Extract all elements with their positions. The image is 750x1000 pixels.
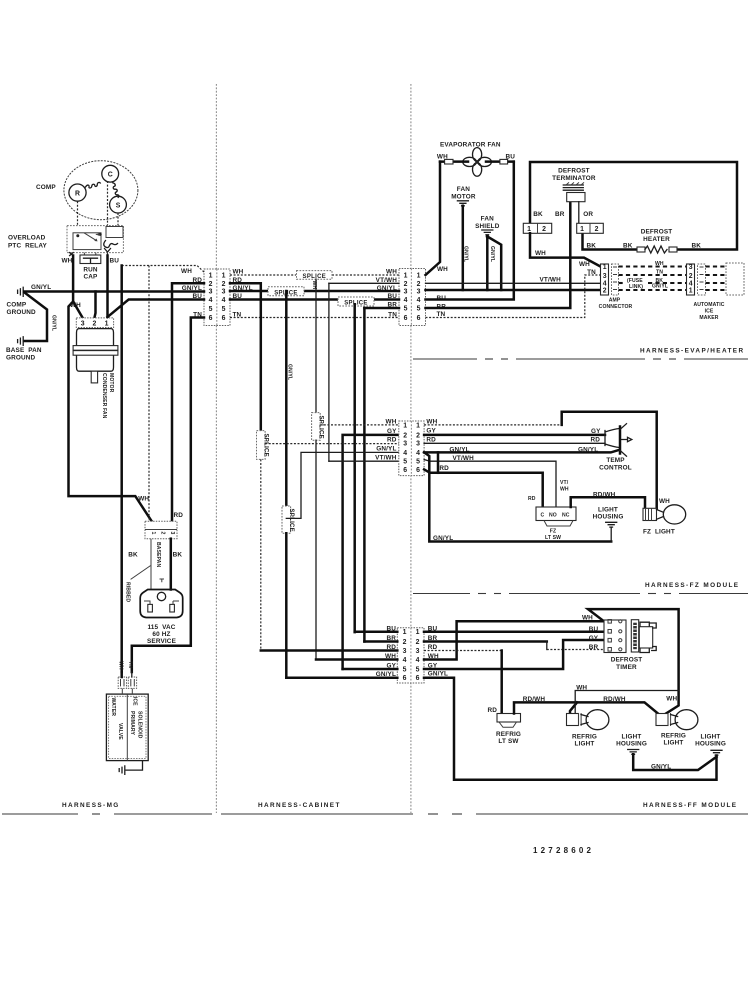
overload contacts: [73, 233, 101, 250]
svg-text:2: 2: [603, 288, 607, 295]
svg-text:2: 2: [222, 281, 226, 288]
wire GN/YL FZ pin4 to temp control: [424, 450, 619, 453]
wire BR row to defrost terminator: [426, 202, 571, 308]
svg-text:2: 2: [403, 639, 407, 646]
svg-text:TN: TN: [127, 661, 133, 668]
svg-text:1: 1: [417, 273, 421, 280]
svg-text:HARNESS-CABINET: HARNESS-CABINET: [258, 802, 341, 809]
lead C: [107, 181, 109, 256]
svg-text:6: 6: [404, 315, 408, 322]
svg-text:RD: RD: [174, 512, 184, 519]
svg-text:3: 3: [603, 273, 607, 280]
svg-text:RD: RD: [439, 465, 449, 472]
wire GN/YL comp ground to connector: [24, 290, 204, 293]
basepan connector: [145, 521, 177, 538]
condenser fan motor shaft: [91, 371, 97, 383]
svg-text:LINK): LINK): [629, 284, 643, 290]
wire GN/YL branch to fan pin2: [94, 292, 95, 318]
lead R: [77, 201, 79, 236]
svg-text:CONNECTOR: CONNECTOR: [599, 304, 633, 310]
wire TN row to AMP pin3: [426, 275, 601, 318]
svg-text:LIGHT: LIGHT: [598, 507, 618, 514]
compressor terminal R: [69, 184, 86, 201]
PTC element: [104, 241, 118, 248]
wire VT/WH row2 evap side: [329, 282, 399, 284]
svg-text:TERMINATOR: TERMINATOR: [552, 175, 596, 182]
svg-text:5: 5: [403, 666, 407, 673]
svg-text:SOLENOID: SOLENOID: [137, 711, 143, 739]
svg-text:2: 2: [92, 320, 96, 327]
svg-text:BR: BR: [589, 644, 599, 651]
svg-text:EVAPORATOR FAN: EVAPORATOR FAN: [440, 142, 501, 149]
svg-text:BK: BK: [128, 552, 138, 559]
svg-text:VT/WH: VT/WH: [540, 276, 562, 283]
svg-text:RD: RD: [387, 436, 397, 443]
wire GN/YL vertical cabinet: [285, 291, 288, 506]
svg-text:1: 1: [580, 226, 584, 233]
svg-text:RD: RD: [528, 496, 536, 502]
svg-text:LIGHT: LIGHT: [664, 740, 684, 747]
wire BU into FF pin1: [355, 631, 398, 634]
fan shield ground: [482, 230, 493, 235]
connector FF 6-pin: [397, 628, 424, 683]
svg-text:60 HZ: 60 HZ: [152, 631, 170, 638]
svg-text:5: 5: [403, 459, 407, 466]
svg-text:PTC RELAY: PTC RELAY: [8, 242, 47, 249]
svg-text:COMP: COMP: [7, 302, 27, 309]
svg-text:1: 1: [603, 264, 607, 271]
connector FZ 6-pin: [399, 421, 424, 476]
wire GY into FF pin5: [343, 668, 398, 671]
svg-text:RD: RD: [488, 707, 498, 714]
wire GY FZ pin2 to temp control: [424, 434, 605, 437]
ice maker harness dashed wires: [619, 265, 687, 267]
svg-text:2: 2: [209, 281, 213, 288]
svg-text:ICE: ICE: [705, 308, 714, 314]
svg-text:GROUND: GROUND: [7, 309, 37, 316]
svg-text:FZ LIGHT: FZ LIGHT: [643, 529, 675, 536]
harness separator bottom horizontal: [2, 813, 78, 815]
svg-text:BK: BK: [173, 552, 183, 559]
wire GN/YL fan shield ground: [486, 237, 489, 291]
svg-text:BR: BR: [555, 211, 565, 218]
wire RD vertical cabinet: [230, 283, 261, 430]
svg-text:5: 5: [222, 306, 226, 313]
wire RD/WH switch to lights: [514, 702, 658, 713]
svg-text:1: 1: [222, 273, 226, 280]
svg-text:4: 4: [403, 657, 407, 664]
svg-text:WH: WH: [70, 302, 81, 309]
svg-text:REFRIG: REFRIG: [661, 733, 686, 740]
refrig light switch: [497, 714, 521, 723]
svg-text:3: 3: [222, 289, 226, 296]
wire WH FZ pin1 to FZ light: [424, 424, 562, 426]
svg-text:2: 2: [160, 532, 166, 535]
svg-text:DEFROST: DEFROST: [641, 229, 673, 236]
wire GY vertical cabinet: [343, 435, 399, 669]
svg-text:AMP: AMP: [609, 298, 621, 304]
svg-text:RUN: RUN: [83, 266, 98, 273]
ice maker module dashed: [706, 265, 727, 267]
svg-text:OR: OR: [583, 211, 593, 218]
svg-text:BU: BU: [110, 257, 120, 264]
svg-text:GN/YL: GN/YL: [652, 284, 668, 290]
svg-text:HARNESS-EVAP/HEATER: HARNESS-EVAP/HEATER: [640, 347, 744, 354]
svg-text:6: 6: [403, 675, 407, 682]
FF housing ground 1: [628, 750, 639, 755]
wire RD branch to FZ pin3: [265, 443, 399, 445]
svg-text:3: 3: [689, 264, 693, 271]
svg-text:6: 6: [403, 467, 407, 474]
svg-text:VT/WH: VT/WH: [375, 454, 397, 461]
splice WH: [297, 271, 333, 280]
svg-text:1: 1: [150, 532, 156, 535]
svg-text:HARNESS-FF MODULE: HARNESS-FF MODULE: [643, 802, 737, 809]
wire VT/WH FZ pin5 to FZ lt sw NO: [424, 460, 556, 508]
svg-text:5: 5: [416, 666, 420, 673]
splice GN/YL cabinet: [282, 506, 291, 533]
fan motor ground: [457, 201, 468, 206]
svg-text:SERVICE: SERVICE: [147, 638, 177, 645]
svg-text:BK: BK: [623, 242, 633, 249]
svg-text:GN/YL: GN/YL: [489, 246, 495, 262]
wire GN/YL housing grounds: [633, 754, 716, 770]
wire RD into FF pin3: [261, 649, 398, 652]
svg-text:WH: WH: [118, 661, 124, 670]
svg-text:HOUSING: HOUSING: [616, 741, 647, 748]
wire GN/YL fan motor ground: [462, 206, 465, 290]
svg-text:WH: WH: [233, 268, 244, 275]
svg-text:RD: RD: [591, 437, 601, 444]
svg-text:CAP: CAP: [84, 274, 99, 281]
connector MG/cabinet 6-pin: [204, 269, 230, 326]
svg-text:1: 1: [403, 422, 407, 429]
FF housing ground 2: [711, 750, 722, 755]
harness separator evap/heater horizontal: [413, 358, 477, 360]
run capacitor: [83, 253, 85, 255]
svg-text:GN/YL: GN/YL: [428, 670, 448, 677]
condenser fan connector 3-2-1: [76, 318, 113, 328]
defrost timer: [604, 620, 626, 653]
evaporator fan symbol: [473, 148, 482, 162]
wire RD FZ pin6 to FZ lt sw C: [424, 469, 543, 507]
wire GN/YL into FF pin6: [286, 676, 397, 679]
temp control symbol: [605, 429, 620, 448]
svg-text:SPLICE: SPLICE: [344, 301, 367, 307]
wire valve leads: [120, 672, 123, 677]
svg-text:GN/YL: GN/YL: [651, 764, 671, 771]
svg-text:WH: WH: [582, 615, 593, 622]
wire BU fan down to pin4: [426, 162, 514, 300]
wire RD mg row to basepan: [172, 283, 204, 521]
svg-text:NO: NO: [549, 513, 557, 519]
svg-text:GY: GY: [426, 427, 436, 434]
compressor terminal C: [102, 165, 119, 182]
harness separator vertical MG/CABINET: [215, 84, 217, 813]
svg-text:2: 2: [417, 281, 421, 288]
base pan ground symbol: [18, 337, 24, 346]
svg-text:FAN: FAN: [457, 186, 470, 193]
splice GN/YL: [268, 287, 304, 296]
wire WH row1 MG-evap: [230, 274, 296, 276]
svg-text:3: 3: [404, 289, 408, 296]
svg-text:DEFROST: DEFROST: [558, 168, 590, 175]
svg-text:DEFROST: DEFROST: [611, 657, 643, 664]
svg-text:GROUND: GROUND: [6, 354, 36, 361]
svg-text:6: 6: [416, 467, 420, 474]
svg-text:NC: NC: [562, 513, 570, 519]
svg-text:5: 5: [417, 306, 421, 313]
wire GN/YL row to AMP pin2: [426, 289, 601, 292]
svg-text:LT SW: LT SW: [498, 738, 519, 745]
svg-text:2: 2: [689, 273, 693, 280]
relay lead WH exit: [70, 253, 74, 256]
svg-text:HEATER: HEATER: [643, 236, 670, 243]
svg-text:TN: TN: [587, 269, 596, 276]
wire VT/WH vertical cabinet: [328, 283, 330, 461]
svg-text:6: 6: [209, 315, 213, 322]
svg-text:SPLICE: SPLICE: [288, 509, 294, 532]
svg-text:3: 3: [403, 441, 407, 448]
svg-text:5: 5: [404, 306, 408, 313]
svg-text:RD/WH: RD/WH: [593, 491, 616, 498]
svg-text:2: 2: [404, 281, 408, 288]
svg-text:WH: WH: [181, 268, 192, 275]
svg-text:WH: WH: [426, 418, 437, 425]
svg-text:4: 4: [403, 450, 407, 457]
wire valve to ground: [126, 761, 143, 771]
svg-text:LIGHT: LIGHT: [701, 734, 721, 741]
svg-text:GN/YL: GN/YL: [578, 447, 598, 454]
svg-text:MOTOR: MOTOR: [108, 373, 114, 393]
svg-text:MAKER: MAKER: [699, 315, 718, 321]
svg-text:2: 2: [403, 432, 407, 439]
svg-text:5: 5: [209, 306, 213, 313]
connector cabinet/evap 6-pin: [399, 269, 426, 326]
svg-text:HOUSING: HOUSING: [695, 741, 726, 748]
svg-text:TIMER: TIMER: [616, 664, 637, 671]
defrost heater resistor: [637, 247, 645, 252]
svg-text:3: 3: [403, 648, 407, 655]
svg-text:4: 4: [404, 297, 408, 304]
svg-text:TN: TN: [656, 269, 663, 275]
svg-text:2: 2: [542, 226, 546, 233]
refrig light bulb 2: [656, 714, 668, 726]
svg-text:GN/YL: GN/YL: [287, 364, 293, 380]
svg-text:WH: WH: [437, 266, 448, 273]
svg-text:BASEPAN: BASEPAN: [155, 542, 161, 567]
wire BU diag from connector row4: [108, 300, 205, 318]
relay S contact box: [106, 227, 123, 238]
wire WH fan down to pin1: [426, 162, 441, 275]
svg-text:WH: WH: [386, 268, 397, 275]
svg-text:FZ: FZ: [550, 529, 556, 535]
wire VT/WH row to AMP pin4: [426, 282, 601, 284]
svg-text:VT/: VT/: [560, 480, 569, 486]
svg-text:WH: WH: [535, 250, 546, 257]
svg-text:BASE PAN: BASE PAN: [6, 347, 42, 354]
svg-text:GY: GY: [589, 635, 599, 642]
wire WH lights link: [575, 691, 678, 714]
svg-text:WH: WH: [138, 496, 149, 503]
svg-text:4: 4: [603, 281, 607, 288]
wire GN/YL row3 MG-evap: [230, 290, 268, 293]
wire GN/YL branch to FZ pin4: [286, 452, 399, 518]
svg-text:3: 3: [209, 289, 213, 296]
svg-text:RD/WH: RD/WH: [523, 696, 546, 703]
svg-text:BK: BK: [692, 242, 702, 249]
svg-text:3: 3: [81, 320, 85, 327]
splice WH cabinet: [312, 413, 321, 441]
svg-text:WATER: WATER: [110, 698, 116, 717]
water valve 2-pin connector: [118, 677, 126, 688]
svg-text:PRIMARY: PRIMARY: [129, 711, 135, 736]
compressor winding C-S: [113, 183, 119, 198]
svg-text:REFRIG: REFRIG: [572, 734, 597, 741]
svg-text:RIBBED: RIBBED: [125, 582, 131, 602]
svg-text:REFRIG: REFRIG: [496, 731, 521, 738]
wire GN/YL FF pin6 to grounds: [424, 678, 717, 780]
svg-text:4: 4: [416, 657, 420, 664]
svg-text:GN/YL: GN/YL: [433, 535, 453, 542]
water valve solenoid box: [106, 694, 148, 761]
svg-text:3: 3: [417, 289, 421, 296]
svg-text:COMP: COMP: [36, 184, 56, 191]
FZ light bulb: [643, 508, 657, 520]
svg-text:WH: WH: [659, 498, 670, 505]
svg-text:6: 6: [417, 315, 421, 322]
relay lead BU exit: [105, 249, 111, 253]
svg-text:C: C: [108, 171, 113, 178]
compressor winding R-C: [86, 182, 101, 188]
svg-text:WH: WH: [579, 261, 590, 268]
svg-text:CONDENSER FAN: CONDENSER FAN: [101, 373, 107, 419]
wire WH branch to FZ pin1: [320, 424, 399, 426]
wire BR row5 evap side: [364, 307, 399, 310]
FZ light switch: [536, 507, 576, 521]
defrost heater circuit box: [530, 162, 737, 250]
svg-text:R: R: [75, 190, 80, 197]
svg-text:BU: BU: [589, 626, 599, 633]
service plug 115VAC: [140, 590, 183, 618]
svg-text:WH: WH: [386, 418, 397, 425]
condenser fan motor body: [77, 329, 114, 372]
svg-text:SHIELD: SHIELD: [475, 223, 500, 230]
svg-text:WH: WH: [62, 257, 73, 264]
svg-text:2: 2: [595, 226, 599, 233]
svg-text:AUTOMATIC: AUTOMATIC: [694, 302, 725, 308]
wire RD/WH FZ sw NC to light: [571, 497, 645, 508]
compressor terminal S: [110, 196, 127, 213]
svg-text:HARNESS-MG: HARNESS-MG: [62, 802, 120, 809]
svg-text:1: 1: [416, 422, 420, 429]
wire WH to basepan branch: [69, 302, 152, 522]
svg-text:4: 4: [417, 297, 421, 304]
svg-text:VALVE: VALVE: [117, 723, 123, 740]
svg-text:1: 1: [404, 273, 408, 280]
wire WH cap column: [73, 256, 83, 318]
wire WH into FF pin4: [316, 658, 397, 661]
svg-text:12728602: 12728602: [533, 846, 594, 855]
wire BU row4 MG-evap: [230, 298, 338, 301]
svg-text:3: 3: [169, 532, 175, 535]
wire GN/YL FZ pin4 down to housing ground: [424, 452, 611, 541]
wire RD FZ pin3 to temp control: [424, 442, 605, 444]
svg-text:WH: WH: [655, 261, 664, 267]
wire WH heater to AMP pin1: [530, 233, 601, 266]
svg-text:1: 1: [403, 629, 407, 636]
svg-text:RD: RD: [426, 436, 436, 443]
2-pin connector heater right: [577, 223, 604, 233]
svg-text:ICE: ICE: [132, 697, 138, 706]
svg-text:3: 3: [416, 441, 420, 448]
svg-text:GY: GY: [387, 428, 397, 435]
harness separator vertical CABINET/FF: [410, 84, 412, 813]
svg-text:FAN: FAN: [481, 216, 494, 223]
svg-text:WH: WH: [576, 685, 587, 692]
svg-text:MOTOR: MOTOR: [451, 193, 476, 200]
wire BR into FF pin2: [364, 640, 397, 643]
svg-text:2: 2: [416, 432, 420, 439]
svg-text:1: 1: [416, 629, 420, 636]
svg-text:1: 1: [527, 226, 531, 233]
defrost terminator symbol: [563, 185, 583, 190]
overload PTC relay box: [67, 226, 123, 253]
svg-text:4: 4: [222, 297, 226, 304]
svg-text:6: 6: [222, 315, 226, 322]
wire WH mg row to valve column: [122, 266, 204, 273]
wire BU FF pin1 to timer: [424, 631, 604, 634]
svg-text:GN/YL: GN/YL: [376, 446, 396, 453]
svg-text:4: 4: [209, 297, 213, 304]
svg-text:GN/YL: GN/YL: [51, 315, 57, 331]
svg-text:115 VAC: 115 VAC: [147, 624, 175, 631]
svg-text:WH: WH: [666, 696, 677, 703]
svg-text:SPLICE: SPLICE: [263, 434, 269, 457]
svg-text:C: C: [541, 513, 545, 519]
wire RD FF pin3 to refrig lt sw: [424, 650, 502, 652]
wire BU vertical cabinet: [353, 304, 356, 632]
comp ground symbol: [18, 287, 24, 296]
wire TN mg row to valve: [132, 318, 204, 673]
wire TN row6 MG-evap: [230, 317, 399, 319]
svg-text:3: 3: [416, 648, 420, 655]
valve ground symbol: [119, 766, 125, 774]
svg-text:HOUSING: HOUSING: [593, 514, 624, 521]
svg-text:OVERLOAD: OVERLOAD: [8, 235, 46, 242]
wire BK ribbed to plug: [150, 539, 152, 590]
lead S: [112, 213, 118, 236]
svg-text:LIGHT: LIGHT: [575, 741, 595, 748]
svg-text:WH: WH: [560, 487, 569, 493]
AMP connector: [601, 264, 609, 295]
wire BU cap column: [106, 256, 109, 318]
2-pin connector heater left: [523, 223, 551, 233]
svg-text:HARNESS-FZ MODULE: HARNESS-FZ MODULE: [645, 582, 739, 589]
svg-text:WH: WH: [311, 281, 317, 290]
FZ housing ground: [606, 522, 617, 527]
svg-text:6: 6: [416, 675, 420, 682]
svg-text:1: 1: [209, 273, 213, 280]
svg-text:GY: GY: [591, 428, 601, 435]
wire GN/YL to base pan ground: [24, 293, 47, 342]
wire WH vertical cabinet: [315, 279, 317, 413]
wire BR FF pin2 to timer: [424, 640, 547, 643]
svg-text:5: 5: [416, 459, 420, 466]
wire VT/WH branch to FZ pin5: [329, 460, 399, 462]
wire BK dotted to basepan: [148, 266, 150, 522]
svg-text:SPLICE: SPLICE: [303, 274, 326, 280]
